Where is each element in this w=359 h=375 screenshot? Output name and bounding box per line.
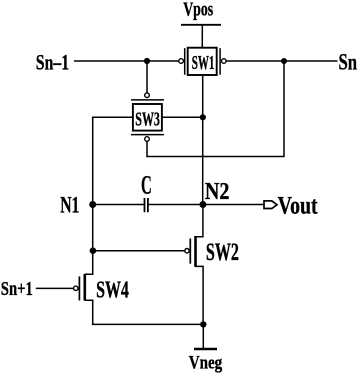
svg-text:SW3: SW3 — [135, 108, 160, 130]
svg-text:Vpos: Vpos — [183, 0, 213, 21]
svg-text:N2: N2 — [205, 178, 230, 205]
svg-text:Sn–1: Sn–1 — [36, 50, 69, 75]
svg-text:N1: N1 — [60, 192, 79, 218]
svg-text:Sn: Sn — [339, 49, 358, 74]
svg-text:C: C — [141, 171, 152, 200]
svg-text:SW4: SW4 — [96, 276, 129, 303]
svg-text:Vout: Vout — [278, 193, 319, 220]
svg-text:SW1: SW1 — [192, 53, 215, 74]
svg-text:Sn+1: Sn+1 — [1, 278, 33, 300]
svg-text:SW2: SW2 — [206, 239, 239, 266]
svg-text:Vneg: Vneg — [189, 352, 223, 373]
